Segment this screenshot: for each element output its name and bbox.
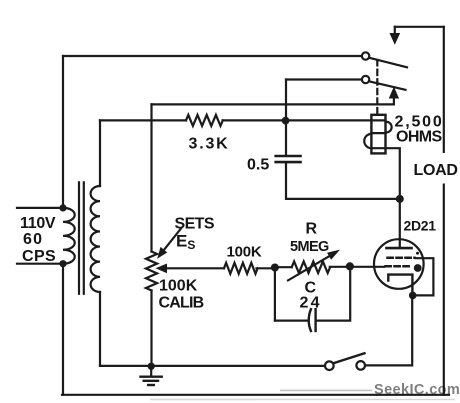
node dot cathode junction: [409, 292, 417, 300]
thyratron shield grid (dashed): [388, 257, 415, 260]
node dot primary top: [59, 204, 66, 211]
capacitor C24 plates: [309, 309, 311, 331]
svg-text:LOAD: LOAD: [414, 162, 458, 179]
node dot primary bottom: [59, 260, 66, 267]
wire contact K1b riser down through to capacitor 0.5: [285, 80, 287, 156]
thyratron V1 2D21 envelope: [374, 239, 424, 289]
svg-text:2D21: 2D21: [404, 218, 437, 234]
relay coil left ear: [364, 134, 371, 148]
relay coil right ear: [386, 122, 392, 133]
wire capacitor 0.5 bottom to anode node: [286, 164, 400, 199]
svg-text:60: 60: [23, 231, 43, 248]
wire right load line lower segment: [443, 185, 445, 395]
relay coil bottom lead: [371, 148, 399, 199]
wire secondary top riser: [99, 120, 101, 186]
rheostat R 5MEG arrow: [288, 256, 330, 281]
wire 3.3K rail from secondary top: [100, 119, 186, 121]
potentiometer 100K CALIB body: [146, 252, 157, 291]
contact K1b moving arm: [369, 81, 406, 90]
capacitor 0.5 plates: [276, 155, 301, 158]
svg-text:SETS: SETS: [175, 216, 215, 233]
rheostat R 5MEG body: [292, 261, 330, 273]
svg-text:R: R: [306, 221, 318, 238]
dashed mechanical link relay armature: [376, 60, 378, 115]
wire riser to potentiometer: [150, 104, 152, 251]
wire shield-to-cathode loop: [416, 258, 434, 295]
wire left riser (outer loop, lower part): [62, 264, 64, 395]
wire 100K to node A: [257, 267, 275, 269]
node A dot: [271, 264, 279, 272]
thyratron gas dot small: [416, 252, 419, 255]
svg-text:5MEG: 5MEG: [290, 239, 329, 255]
svg-text:CALIB: CALIB: [159, 295, 204, 312]
svg-text:100K: 100K: [227, 244, 262, 261]
relay coil K1 body: [371, 115, 385, 154]
contact K1b fixed terminal circle: [362, 76, 369, 83]
ground: [150, 368, 152, 376]
transformer T1 core: [78, 182, 80, 293]
transformer T1 primary winding: [63, 208, 75, 264]
wire 5MEG to grid node and tube: [330, 266, 384, 268]
transformer T1 primary leads (110V input): [17, 207, 63, 209]
wire anode lead: [399, 199, 401, 248]
svg-text:110V: 110V: [20, 215, 56, 232]
switch S1 arm: [333, 353, 364, 363]
svg-text:100K: 100K: [159, 278, 198, 295]
thyratron cathode: [388, 275, 412, 296]
switch S1 right circle: [356, 361, 365, 370]
wire bottom switch rail: [100, 365, 325, 367]
wire cathode down to switch: [365, 295, 412, 365]
wire pot bottom to ground: [150, 291, 152, 366]
svg-text:OHMS: OHMS: [396, 129, 443, 146]
resistor 100K: [224, 263, 258, 274]
wire C24 bottom right up to grid node: [316, 267, 351, 321]
svg-text:SeekIC.com: SeekIC.com: [374, 382, 460, 398]
contact K1a moving arm: [369, 58, 407, 68]
thyratron gas dot: [414, 264, 422, 272]
wire contact K1b feeder: [286, 78, 362, 80]
resistor 3.3K: [186, 115, 223, 126]
node dot ground junction: [148, 363, 155, 370]
wire left riser (outer loop, upper part): [62, 56, 64, 208]
wire pot-top to contact K1b arm (arrow up): [152, 98, 394, 105]
watermark SeekIC.com: [150, 382, 460, 400]
contact K1a fixed terminal circle: [362, 52, 369, 59]
node dot cap/holding-contact junction: [282, 117, 290, 125]
svg-text:3.3K: 3.3K: [189, 136, 230, 153]
wire top rail from left riser to contact K1a: [63, 55, 362, 57]
thyratron control grid (dashed): [386, 265, 412, 268]
wire top-right corner to arrow: [395, 26, 444, 28]
svg-text:24: 24: [300, 295, 322, 312]
wire C24 bottom left: [275, 320, 307, 322]
relay coil cross turn: [371, 132, 385, 134]
potentiometer wiper arrow: [166, 267, 225, 269]
svg-text:0.5: 0.5: [247, 157, 269, 174]
wire node A to 5MEG: [275, 266, 292, 268]
thyratron plate: [387, 247, 412, 250]
wire secondary bottom riser: [99, 292, 101, 366]
annotation arrow SETS Es: [164, 229, 182, 251]
wire bottom rail: [62, 394, 449, 396]
switch S1 left circle: [325, 361, 334, 370]
node dot grid junction: [346, 262, 354, 270]
node dot anode junction: [396, 195, 404, 203]
arrow to contact K1a moving arm (down): [394, 27, 396, 34]
wire right load line upper segment: [443, 27, 445, 152]
wire node A down to C24: [274, 268, 276, 321]
svg-text:CPS: CPS: [22, 248, 56, 265]
transformer T1 secondary winding: [91, 186, 100, 292]
